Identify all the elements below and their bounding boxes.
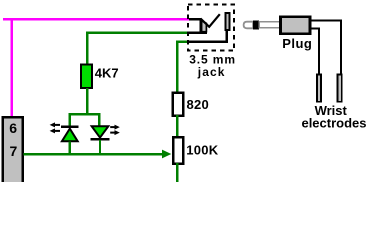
- LED D2 emission arrow upper (pointing right): [110, 126, 116, 128]
- jack tip contact left bar: [200, 18, 202, 33]
- LED D1 emission arrow lower (pointing left): [53, 130, 60, 132]
- resistor R2 820: [173, 93, 184, 116]
- plug tip: [244, 22, 254, 29]
- plug shaft: [259, 22, 280, 28]
- wire green: drop to left LED cathode: [69, 113, 71, 127]
- jack sleeve wire to bottom: [188, 30, 227, 42]
- connector (computer port) gray box with pins 6 and 7: [3, 117, 23, 184]
- wire green: 100K bottom to image bottom edge: [176, 163, 178, 182]
- jack sleeve barrel: [225, 13, 229, 30]
- jack tip contact gray pad: [202, 21, 207, 32]
- svg-text:7: 7: [10, 143, 18, 159]
- LED D1 triangle: [62, 129, 78, 142]
- LED D2 emission arrow lower (pointing right): [110, 132, 116, 134]
- wire green: 820 to 100K: [176, 115, 178, 138]
- svg-text:Plug: Plug: [282, 36, 312, 51]
- potentiometer wiper arrow: [162, 150, 171, 159]
- svg-text:6: 6: [9, 120, 17, 136]
- electrode right: [338, 74, 342, 101]
- svg-text:electrodes: electrodes: [301, 116, 366, 131]
- jack ring contact bottom line: [188, 31, 207, 33]
- plug body: [280, 17, 310, 34]
- electrode left: [317, 74, 321, 101]
- wire magenta vertical (down to connector pin 6): [11, 18, 13, 117]
- svg-text:jack: jack: [197, 65, 226, 79]
- LED D2 cathode bar: [91, 138, 110, 140]
- LED D1 emission arrow upper (pointing left): [53, 124, 60, 126]
- LED D2 (right, cathode down) triangle: [92, 126, 109, 137]
- LED D1 (left, cathode up) bar: [61, 126, 79, 128]
- svg-text:820: 820: [187, 97, 210, 112]
- potentiometer R3 100K body: [173, 137, 183, 163]
- wire black: plug upper lead to right electrode: [311, 21, 341, 75]
- wire green: LED top bus: [70, 113, 99, 115]
- jack tip wire (top line inside enclosure): [189, 18, 202, 20]
- wire green: jack ring to 4K7 top (horizontal then down): [87, 33, 188, 64]
- wire green: 4K7 bottom to LED top bus: [86, 88, 88, 114]
- wire green: right LED cathode to bottom bus: [99, 140, 101, 154]
- wire green: bottom bus pin 7 to potentiometer wiper: [24, 153, 164, 156]
- jack J1 dashed enclosure: [188, 4, 234, 50]
- resistor R1 4K7 (green body): [81, 65, 92, 88]
- wire green: jack sleeve down to 820: [177, 42, 188, 92]
- wire green: drop to right LED anode: [98, 113, 100, 127]
- wire black: plug lower lead to left electrode: [311, 29, 319, 75]
- svg-text:4K7: 4K7: [95, 66, 119, 81]
- jack tip spring contact (V): [201, 14, 220, 27]
- wire green: left LED anode to bottom bus: [69, 142, 71, 155]
- wire magenta horizontal (left edge to jack tip spring): [3, 18, 190, 21]
- plug insulator band: [253, 20, 259, 29]
- svg-text:100K: 100K: [186, 143, 219, 158]
